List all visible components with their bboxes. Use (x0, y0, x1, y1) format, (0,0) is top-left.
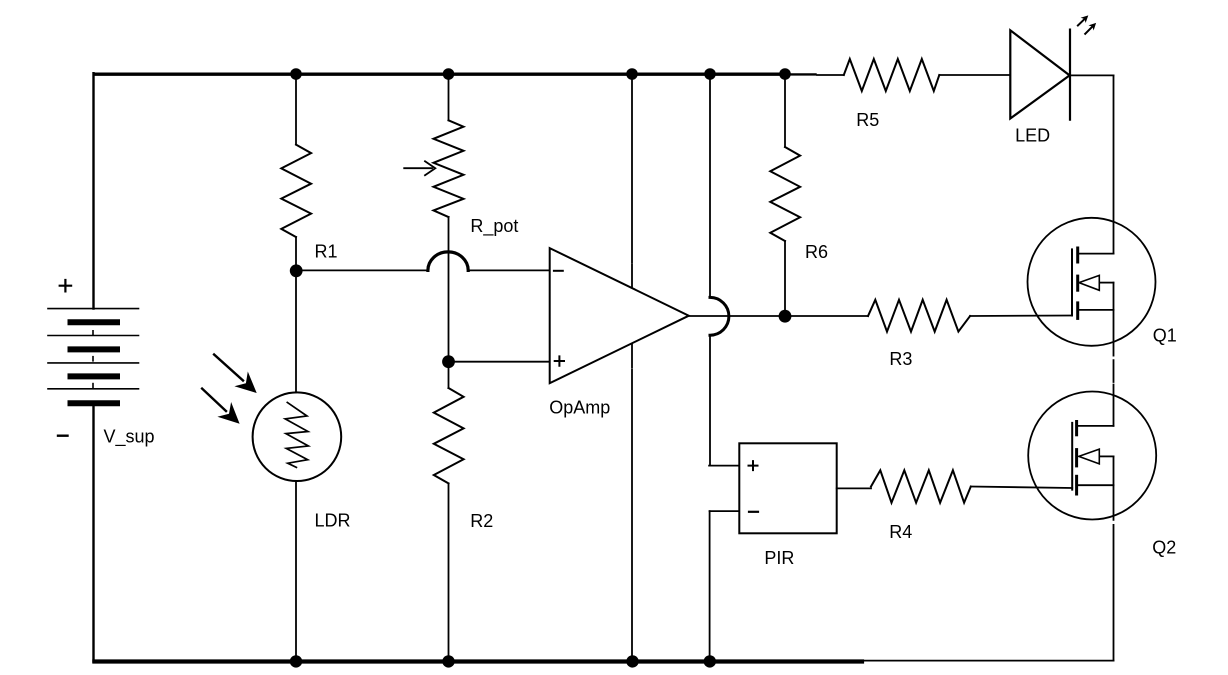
svg-text:Q1: Q1 (1153, 326, 1177, 346)
svg-text:LED: LED (1015, 126, 1050, 146)
svg-text:R3: R3 (889, 349, 912, 369)
svg-text:R4: R4 (889, 522, 912, 542)
svg-text:R6: R6 (805, 242, 828, 262)
svg-text:R_pot: R_pot (470, 216, 518, 237)
svg-text:Q2: Q2 (1152, 538, 1176, 558)
svg-text:R5: R5 (856, 110, 879, 130)
svg-text:V_sup: V_sup (104, 427, 155, 448)
svg-text:R2: R2 (470, 511, 493, 531)
svg-text:LDR: LDR (315, 511, 351, 531)
svg-text:OpAmp: OpAmp (549, 398, 610, 418)
svg-text:PIR: PIR (764, 548, 794, 568)
svg-text:R1: R1 (315, 242, 338, 262)
